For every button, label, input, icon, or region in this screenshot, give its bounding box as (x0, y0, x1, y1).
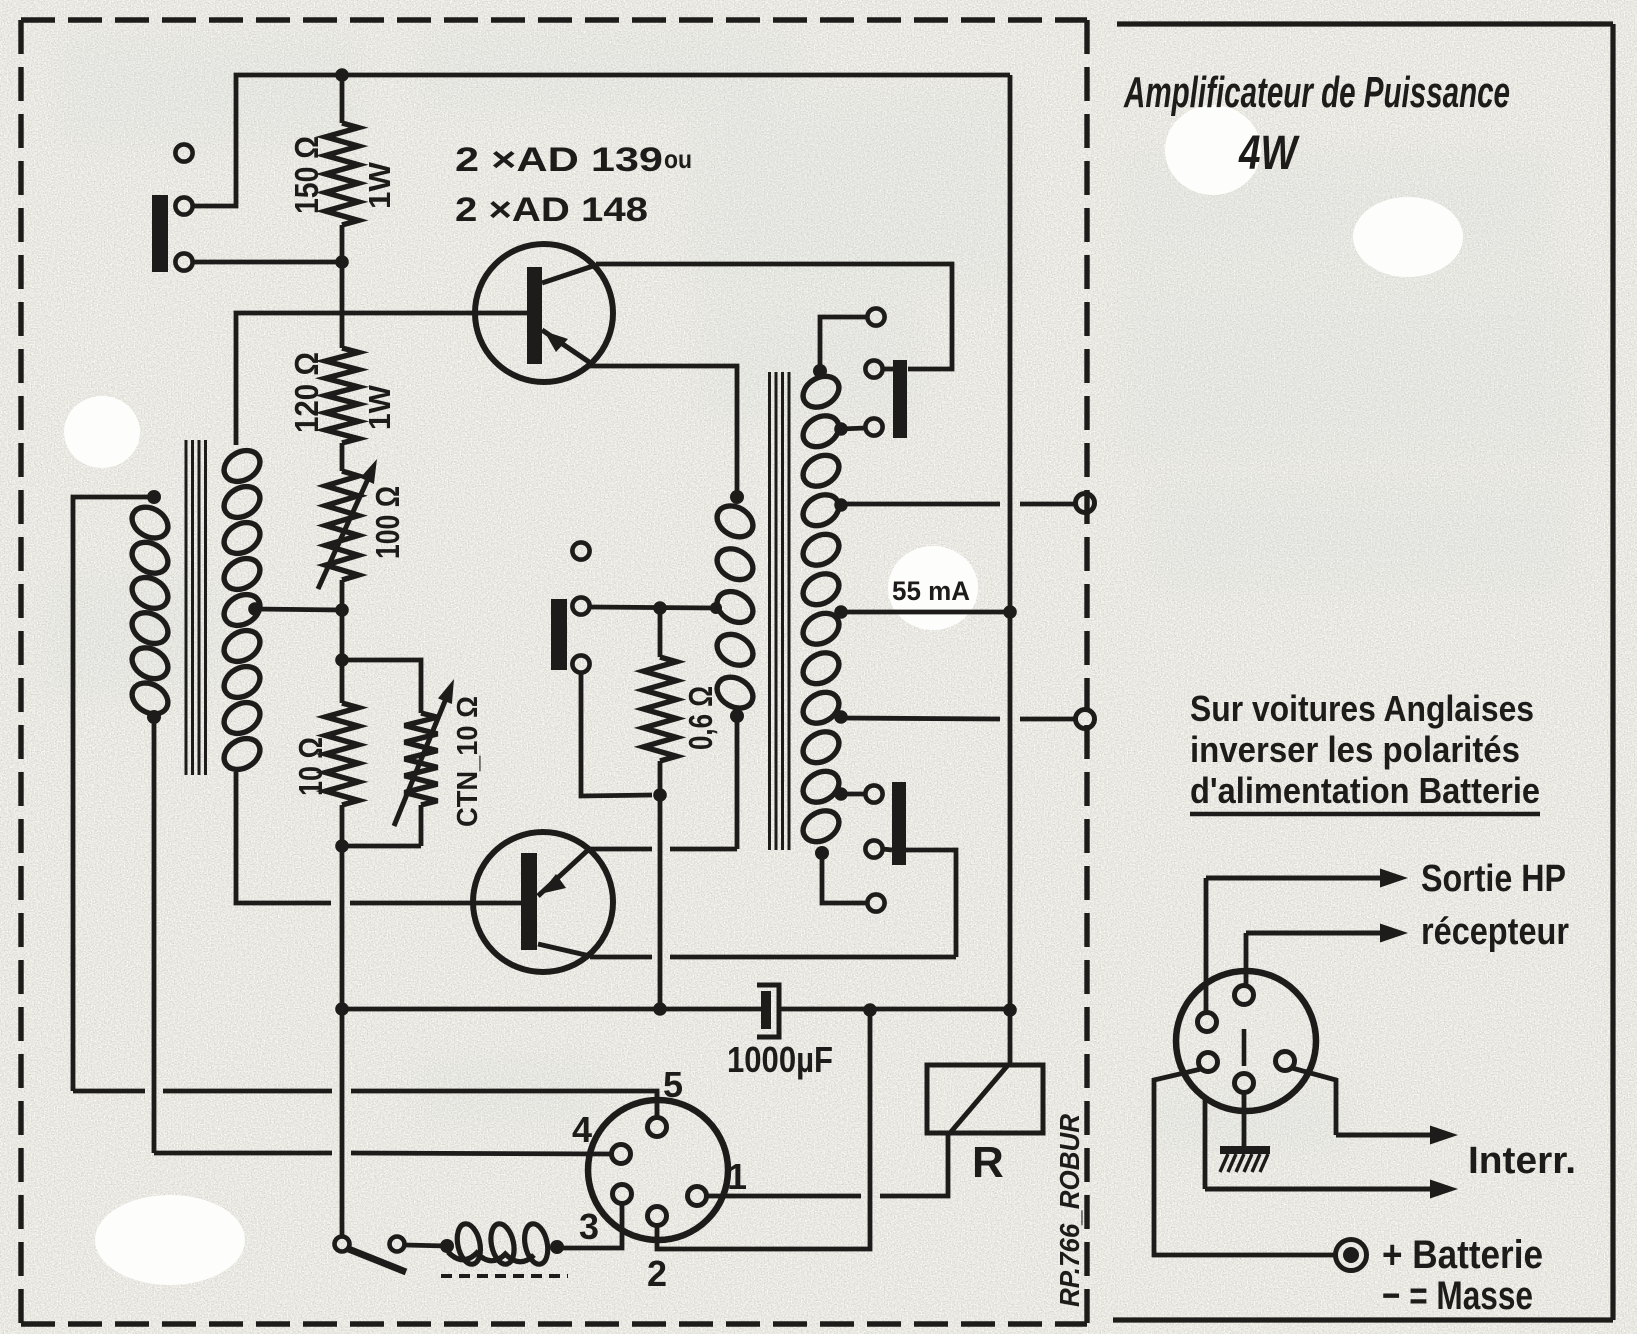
thermistor CTN 10ohm (405, 713, 438, 805)
wire TR1 primary bottom down (152, 717, 157, 1153)
node tap D (834, 710, 848, 724)
transistor Q1 emitter stroke (542, 330, 592, 364)
connector P1 contact 1 (867, 308, 884, 325)
svg-text:CTN_10 Ω: CTN_10 Ω (452, 696, 484, 827)
connector DIN2 left upper pin (1198, 1013, 1217, 1032)
transistor Q1 base bar (527, 267, 542, 364)
svg-text:0,6 Ω: 0,6 Ω (682, 686, 719, 750)
svg-text:2 ×AD 139: 2 ×AD 139 (455, 141, 663, 179)
wire right panel frame bottom (1113, 1317, 1613, 1322)
svg-text:Sortie HP: Sortie HP (1421, 858, 1566, 900)
svg-text:1W: 1W (362, 384, 397, 430)
capacitor 1000uF plate (761, 991, 771, 1029)
svg-text:+ Batterie: + Batterie (1382, 1233, 1543, 1277)
wire dashed schematic border right (1084, 20, 1089, 1324)
node choke right (550, 1240, 564, 1254)
node 0.6ohm bus junction (653, 1002, 667, 1016)
inductor L1 core dashed (441, 1274, 568, 1278)
connector DIN pin3 (613, 1185, 632, 1204)
wire dashed schematic border top (21, 17, 1087, 22)
svg-text:1W: 1W (362, 161, 397, 209)
svg-text:d'alimentation Batterie: d'alimentation Batterie (1190, 770, 1540, 811)
wire DIN pin2 to bus (657, 1010, 870, 1249)
svg-text:− = Masse: − = Masse (1382, 1274, 1533, 1318)
connector P1 plug bar (893, 360, 907, 438)
connector J1 plug bar (152, 195, 168, 272)
connector P2 stub (883, 849, 892, 850)
connector P1 stub (883, 367, 893, 372)
wire relay to DIN pin1 (880, 1133, 948, 1196)
switch S1 contact (390, 1237, 405, 1252)
wire right panel frame top (1117, 21, 1613, 26)
transformer TR2 primary winding (712, 500, 759, 543)
svg-text:4W: 4W (1238, 127, 1300, 180)
wire TR1 to pin4 (154, 1151, 332, 1156)
connector DIN body (588, 1100, 728, 1240)
relay R coil box (927, 1065, 1043, 1133)
wire main vertical to switch (340, 846, 345, 1237)
node tap E (834, 787, 848, 801)
note underline (1190, 812, 1540, 816)
battery terminal (1336, 1240, 1367, 1271)
svg-text:2: 2 (647, 1253, 667, 1294)
svg-text:Amplificateur de Puissance: Amplificateur de Puissance (1123, 68, 1510, 117)
svg-text:Interr.: Interr. (1468, 1140, 1576, 1182)
svg-text:55 mA: 55 mA (892, 576, 970, 606)
node 10ohm bottom junction (335, 839, 349, 853)
node TR1 secondary tap (248, 602, 262, 616)
thermistor CTN arrow (394, 699, 446, 826)
transistor Q1 AD139 body (475, 244, 613, 382)
node 55mA junction (1003, 605, 1017, 619)
svg-text:inverser les polarités: inverser les polarités (1190, 729, 1520, 770)
connector J1 contact 3 (175, 253, 192, 270)
node bus pin2 junction (863, 1003, 877, 1017)
connector J1 floating contact (175, 144, 192, 161)
connector J2 contact 2 (572, 597, 589, 614)
terminal output HP lower (1076, 710, 1095, 729)
wire left lower pin to battery (1154, 1069, 1334, 1255)
svg-text:5: 5 (663, 1064, 683, 1105)
svg-text:R: R (972, 1138, 1004, 1187)
svg-text:1: 1 (727, 1156, 747, 1197)
wire right pin to interr (1283, 1069, 1288, 1074)
node choke left (440, 1239, 454, 1253)
node 0.6ohm top (653, 601, 667, 615)
wire secondary top to contact (820, 317, 867, 369)
wire tap B to border terminal (841, 502, 1000, 507)
wire dashed schematic border left (18, 20, 23, 1324)
node secondary bottom hook (815, 846, 829, 860)
terminal output HP upper (1076, 494, 1095, 513)
capacitor 1000uF bracket (757, 985, 779, 1037)
wire dashed schematic border bottom (21, 1321, 1087, 1326)
connector P2 contact 1 (865, 785, 882, 802)
potentiometer 100ohm wiper arrow (318, 479, 368, 589)
wire Q2 emitter (588, 847, 652, 852)
wire 0.6ohm bottom to bus (658, 795, 663, 1009)
connector DIN pin1 (688, 1187, 707, 1206)
svg-text:ou: ou (664, 144, 692, 174)
wire 55mA (841, 610, 1010, 615)
wire TR1 tap to divider (255, 609, 341, 610)
node divider tap junction (335, 603, 349, 617)
node wire-coil joint (710, 602, 722, 614)
node primary top hook (730, 490, 744, 504)
white correction blobs (64, 105, 1463, 1285)
wire tap D to border terminal (841, 718, 1000, 719)
connector P2 contact 3 (867, 894, 884, 911)
inductor L1 choke (454, 1222, 484, 1267)
wire J2 contact2 to 0.6ohm (590, 607, 716, 608)
wire J2 contact3 loop (581, 673, 652, 796)
transformer TR2 core (768, 372, 771, 850)
node 0.6ohm bottom (653, 788, 667, 802)
resistor 150ohm 1W (340, 75, 345, 123)
node secondary top hook (813, 364, 827, 378)
svg-text:récepteur: récepteur (1421, 911, 1569, 953)
wire bottom bus right (781, 1007, 1010, 1012)
svg-text:1000µF: 1000µF (727, 1039, 833, 1080)
wire DIN2 to ground (1242, 1093, 1247, 1148)
node bus / 150ohm top (335, 68, 349, 82)
wire supply rail right (1008, 75, 1013, 1065)
wire Q1 collector to plug (596, 264, 952, 369)
transistor Q2 base bar (521, 853, 537, 950)
wire CTN bottom (342, 844, 421, 849)
switch S1 lever (346, 1248, 406, 1272)
wire to CTN top (342, 660, 421, 713)
connector DIN2 bottom pin (1235, 1074, 1254, 1093)
resistor 0.6ohm (658, 608, 663, 657)
wire bottom bus left (342, 1007, 761, 1012)
connector DIN2 left lower pin (1199, 1053, 1218, 1072)
connector P2 plug bar (892, 782, 906, 865)
node tap B (834, 498, 848, 512)
svg-text:100 Ω: 100 Ω (369, 486, 406, 559)
connector P1 contact 3 (865, 418, 882, 435)
wire tap A to contact (841, 428, 865, 429)
ground symbol (1220, 1146, 1270, 1154)
wire TR1 secondary top hook (234, 443, 239, 448)
node tap C 55mA (834, 605, 848, 619)
transistor Q2 AD148 body (473, 832, 613, 972)
transformer TR1 primary winding (127, 501, 174, 544)
svg-text:10 Ω: 10 Ω (292, 737, 329, 796)
wire TR1 secondary bottom down (236, 772, 331, 903)
connector J2 contact 3 (572, 655, 589, 672)
arrow interr 2 (1203, 1097, 1208, 1189)
wire T1 base (236, 313, 527, 445)
svg-text:Sur voitures Anglaises: Sur voitures Anglaises (1190, 688, 1534, 729)
connector J1 contact 2 (175, 197, 192, 214)
wire supply to pin5 (73, 1089, 145, 1094)
svg-text:4: 4 (572, 1109, 592, 1150)
connector DIN2 right pin (1276, 1052, 1295, 1071)
connector DIN pin2 (648, 1207, 667, 1226)
node primary bottom hook (730, 709, 744, 723)
node bottom bus start (335, 1002, 349, 1016)
arrow recepteur (1244, 933, 1249, 985)
connector J2 plug bar (551, 599, 567, 670)
node 10ohm top junction (335, 653, 349, 667)
connector DIN2 key mark (1242, 1029, 1247, 1066)
switch S1 pivot (335, 1237, 350, 1252)
potentiometer 100ohm (326, 471, 359, 580)
node bus relay junction (1003, 1003, 1017, 1017)
relay R diagonal (950, 1065, 1008, 1133)
svg-text:RP.766_ROBUR: RP.766_ROBUR (1054, 1113, 1085, 1307)
svg-text:3: 3 (579, 1206, 599, 1247)
arrow sortie HP (1204, 878, 1209, 1012)
wire contact3 to 150ohm bottom (192, 260, 342, 265)
wire right panel frame right (1610, 24, 1615, 1320)
wire TR1 primary top feedback (73, 497, 154, 1091)
connector DIN pin4 (612, 1145, 631, 1164)
wire Q2 collector (590, 955, 652, 960)
connector P2 contact 2 (865, 840, 882, 857)
wire secondary bottom to contact (822, 850, 867, 903)
transformer TR1 secondary winding (219, 444, 266, 487)
svg-text:120 Ω: 120 Ω (288, 352, 325, 433)
transformer TR2 secondary winding (798, 370, 845, 413)
connector DIN2 top pin (1235, 986, 1254, 1005)
connector P1 contact 2 (865, 360, 882, 377)
wire Q1 emitter to primary top (590, 366, 737, 494)
wire tap E to contact (841, 792, 865, 797)
svg-text:2 ×AD 148: 2 ×AD 148 (455, 191, 648, 229)
transistor Q2 collector stroke (538, 944, 590, 956)
svg-text:150 Ω: 150 Ω (288, 136, 325, 214)
node 150/120 junction (335, 255, 349, 269)
wire contact to choke (405, 1245, 447, 1246)
node tap A (834, 422, 848, 436)
connector J2 floating contact (572, 542, 589, 559)
transistor Q2 emitter stroke (538, 850, 588, 896)
resistor 10ohm (340, 610, 345, 660)
resistor 120ohm 1W (340, 262, 345, 348)
wire top bus (192, 75, 1010, 206)
connector DIN2 body (1176, 971, 1316, 1111)
transistor Q1 collector stroke (542, 265, 596, 283)
transformer TR1 core (185, 440, 188, 775)
ghost bleed-through patches (45, 30, 1580, 1150)
connector DIN pin5 (648, 1118, 667, 1137)
